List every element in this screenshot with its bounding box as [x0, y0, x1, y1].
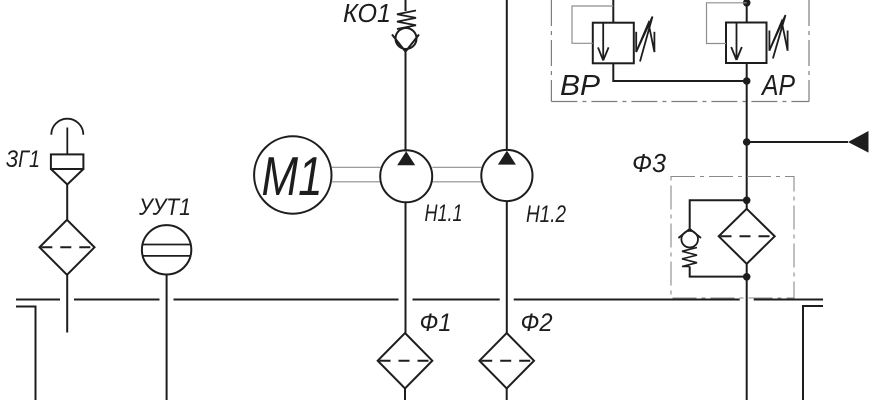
pump H1.1	[380, 150, 432, 202]
wire UUT1	[166, 275, 168, 400]
pilot line BP	[572, 6, 613, 43]
filter F1	[378, 333, 433, 400]
svg-text:Ф3: Ф3	[632, 148, 667, 178]
bypass check valve seat	[678, 229, 701, 238]
chain-line enclosure F3	[671, 177, 794, 299]
svg-text:Н1.1: Н1.1	[425, 200, 463, 227]
svg-text:УУТ1: УУТ1	[138, 194, 191, 221]
tank right wall	[803, 306, 823, 400]
wire pressure line H1.1 to KO1	[405, 0, 407, 152]
motor M1	[254, 136, 331, 213]
relief valve BP arrow	[598, 23, 609, 61]
junction dot outlet branch	[743, 138, 751, 146]
relief valve AP body	[726, 23, 767, 64]
chain-line enclosure BP/AP	[551, 0, 809, 102]
pump H1.2	[481, 150, 532, 201]
svg-text:М1: М1	[262, 145, 323, 207]
svg-text:Ф2: Ф2	[521, 309, 553, 337]
svg-text:Ф1: Ф1	[420, 309, 452, 337]
junction dot F3 top	[743, 197, 751, 205]
junction dot BP-AP	[743, 77, 751, 85]
arrow port symbol	[848, 131, 869, 153]
breather ZG1 body	[51, 154, 84, 169]
filter ZG1 element	[40, 220, 95, 275]
breather ZG1 stem	[66, 128, 68, 155]
wire outlet branch	[747, 141, 848, 143]
shaft M1 to H1.1	[332, 167, 381, 182]
svg-text:АР: АР	[760, 70, 795, 102]
bypass check valve spring	[682, 248, 697, 267]
breather ZG1 arc	[51, 119, 83, 135]
filter F3	[719, 209, 775, 264]
filter F2	[479, 333, 534, 400]
bypass check valve ball	[681, 231, 698, 248]
svg-text:КО1: КО1	[343, 0, 391, 28]
svg-text:ЗГ1: ЗГ1	[6, 146, 40, 173]
wire AP inlet	[746, 0, 748, 23]
wire pressure line H1.2	[506, 0, 508, 151]
shaft H1.1 to H1.2	[432, 167, 481, 182]
wire H1.2 suction	[506, 201, 508, 333]
svg-text:Н1.2: Н1.2	[526, 201, 566, 228]
relief valve BP spring	[636, 17, 654, 62]
junction dot F3 bottom	[743, 273, 751, 281]
wire BP outlet to AP line	[613, 63, 746, 81]
svg-text:ВР: ВР	[560, 70, 601, 102]
wire main return line	[746, 63, 748, 209]
check valve KO1 spring	[397, 11, 416, 30]
breather ZG1 funnel	[51, 169, 84, 185]
tank cover line	[16, 299, 823, 301]
pilot line AP	[707, 3, 747, 44]
wire F3 bypass	[690, 200, 747, 276]
relief valve BP body	[593, 23, 634, 64]
wire BP inlet	[612, 0, 614, 23]
tank left wall	[16, 307, 36, 400]
relief valve AP spring	[769, 15, 787, 59]
level gauge UUT1	[142, 225, 191, 274]
relief valve AP arrow	[731, 23, 742, 61]
junction dot AP pilot	[743, 0, 751, 7]
check valve KO1 ball	[396, 28, 417, 49]
wire ZG1 into tank	[66, 275, 68, 333]
wire H1.1 suction	[405, 202, 407, 333]
check valve KO1 seat	[392, 35, 419, 52]
wire ZG1	[66, 185, 68, 220]
